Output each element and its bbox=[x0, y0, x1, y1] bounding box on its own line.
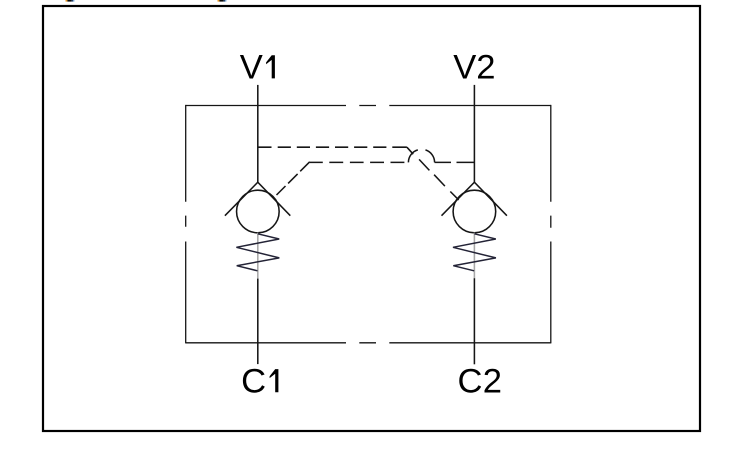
valve body boundary left edge bbox=[185, 105, 187, 344]
pilot line A diagonal run to CV2 seat bbox=[407, 147, 459, 200]
pilot line B horizontal run (before hop) bbox=[310, 161, 405, 163]
svg-text:V: V bbox=[240, 49, 263, 87]
CV2 center line (light, behind spring) bbox=[473, 233, 475, 279]
check valve CV2 seat bbox=[442, 182, 507, 216]
label V1 bbox=[240, 49, 275, 87]
pilot line B hop (crossover arc) bbox=[408, 149, 434, 162]
port line V2 bbox=[473, 85, 475, 182]
check valve CV1 ball bbox=[237, 190, 280, 233]
check valve CV2 ball bbox=[453, 190, 496, 233]
label C1 bbox=[241, 362, 278, 400]
svg-text:C: C bbox=[241, 362, 266, 400]
port line C1 bbox=[257, 279, 259, 365]
valve body boundary bottom edge bbox=[186, 342, 551, 344]
pilot line B horizontal run (after hop) bbox=[435, 161, 475, 163]
port line C2 bbox=[473, 278, 475, 364]
clipped text fragment top-left bbox=[66, 0, 75, 2]
check valve CV1 seat bbox=[225, 182, 290, 216]
label C2 bbox=[458, 362, 503, 400]
port line V1 bbox=[257, 85, 259, 182]
label V2 bbox=[453, 49, 495, 87]
svg-text:V: V bbox=[453, 49, 476, 87]
valve body boundary right edge bbox=[550, 105, 552, 344]
CV1 center line (light, behind spring) bbox=[257, 233, 259, 279]
svg-text:2: 2 bbox=[483, 362, 502, 400]
svg-text:C: C bbox=[458, 362, 483, 400]
valve body boundary (long-dash rectangle) top edge bbox=[186, 105, 551, 107]
pilot line A: V1 to CV2 (dashed), horizontal run bbox=[258, 146, 407, 148]
spring CV2 bbox=[453, 234, 496, 271]
outer border frame bbox=[43, 6, 700, 431]
pilot line B: CV1 seat to V2 (dashed), diagonal run bbox=[277, 162, 310, 195]
svg-text:2: 2 bbox=[476, 49, 495, 87]
spring CV1 bbox=[236, 234, 279, 271]
clipped text fragment top-middle bbox=[218, 0, 227, 2]
